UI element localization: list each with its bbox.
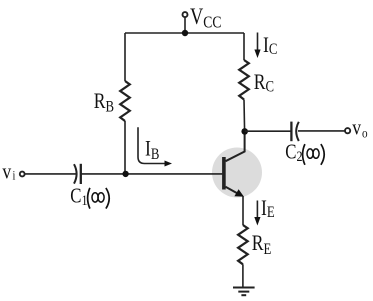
output terminal vo circle	[345, 128, 350, 133]
input terminal vi circle	[20, 172, 25, 177]
capacitor C1 curved plate	[74, 164, 77, 183]
wire collector to C2	[245, 130, 292, 132]
svg-text:IE: IE	[261, 196, 275, 221]
svg-text:vi: vi	[2, 160, 16, 184]
ground	[233, 288, 255, 296]
wire right drop to RC	[243, 33, 245, 60]
transistor Q1 emitter lead	[226, 187, 240, 194]
label IC	[263, 33, 277, 58]
label vi	[2, 160, 16, 184]
label vo	[352, 116, 367, 141]
transistor Q1 collector lead	[226, 132, 245, 162]
wire VCC stub	[184, 17, 186, 33]
power terminal VCC circle	[183, 12, 188, 17]
label C2	[285, 141, 302, 164]
label VCC	[190, 3, 221, 32]
current arrow IE	[256, 201, 258, 219]
resistor RC	[239, 60, 249, 100]
node collector junction dot	[241, 128, 248, 135]
wire RE bottom to ground	[242, 264, 244, 287]
node VCC junction dot	[182, 30, 188, 36]
transistor body circle Q1	[212, 148, 262, 198]
svg-text:vo: vo	[352, 116, 367, 141]
svg-text:VCC: VCC	[190, 3, 221, 32]
capacitor C2 curved plate	[296, 122, 299, 141]
label C1 parentheses and infinity	[88, 188, 110, 209]
wire emitter drop	[242, 196, 244, 225]
current arrow IB	[138, 127, 165, 163]
node base junction dot	[122, 171, 128, 177]
wire base rail right	[81, 173, 223, 175]
svg-text:RB: RB	[94, 89, 114, 116]
svg-text:C2: C2	[285, 141, 302, 164]
svg-text:IB: IB	[145, 137, 159, 164]
label C1	[70, 185, 87, 208]
wire left drop to RB	[124, 33, 126, 81]
capacitor C2 straight plate	[290, 122, 292, 142]
svg-text:RE: RE	[252, 231, 272, 258]
wire RC bottom to collector node	[243, 100, 246, 132]
svg-text:C1: C1	[70, 185, 87, 208]
resistor RB	[120, 81, 130, 121]
label IE	[261, 196, 275, 221]
wire RB bottom to base node	[124, 121, 126, 174]
label RC	[254, 70, 274, 96]
label RB	[94, 89, 114, 116]
wire C2 to vo	[298, 130, 345, 132]
wire base rail left	[25, 173, 77, 175]
svg-text:RC: RC	[254, 70, 274, 96]
label C2 parentheses and infinity	[303, 144, 325, 165]
wire top rail	[125, 32, 244, 34]
svg-text:IC: IC	[263, 33, 277, 58]
current arrow IC	[257, 33, 259, 51]
resistor RE	[238, 225, 248, 264]
label IB	[145, 137, 159, 164]
label RE	[252, 231, 272, 258]
transistor Q1 base bar	[222, 157, 226, 190]
capacitor C1 straight plate	[80, 164, 82, 184]
